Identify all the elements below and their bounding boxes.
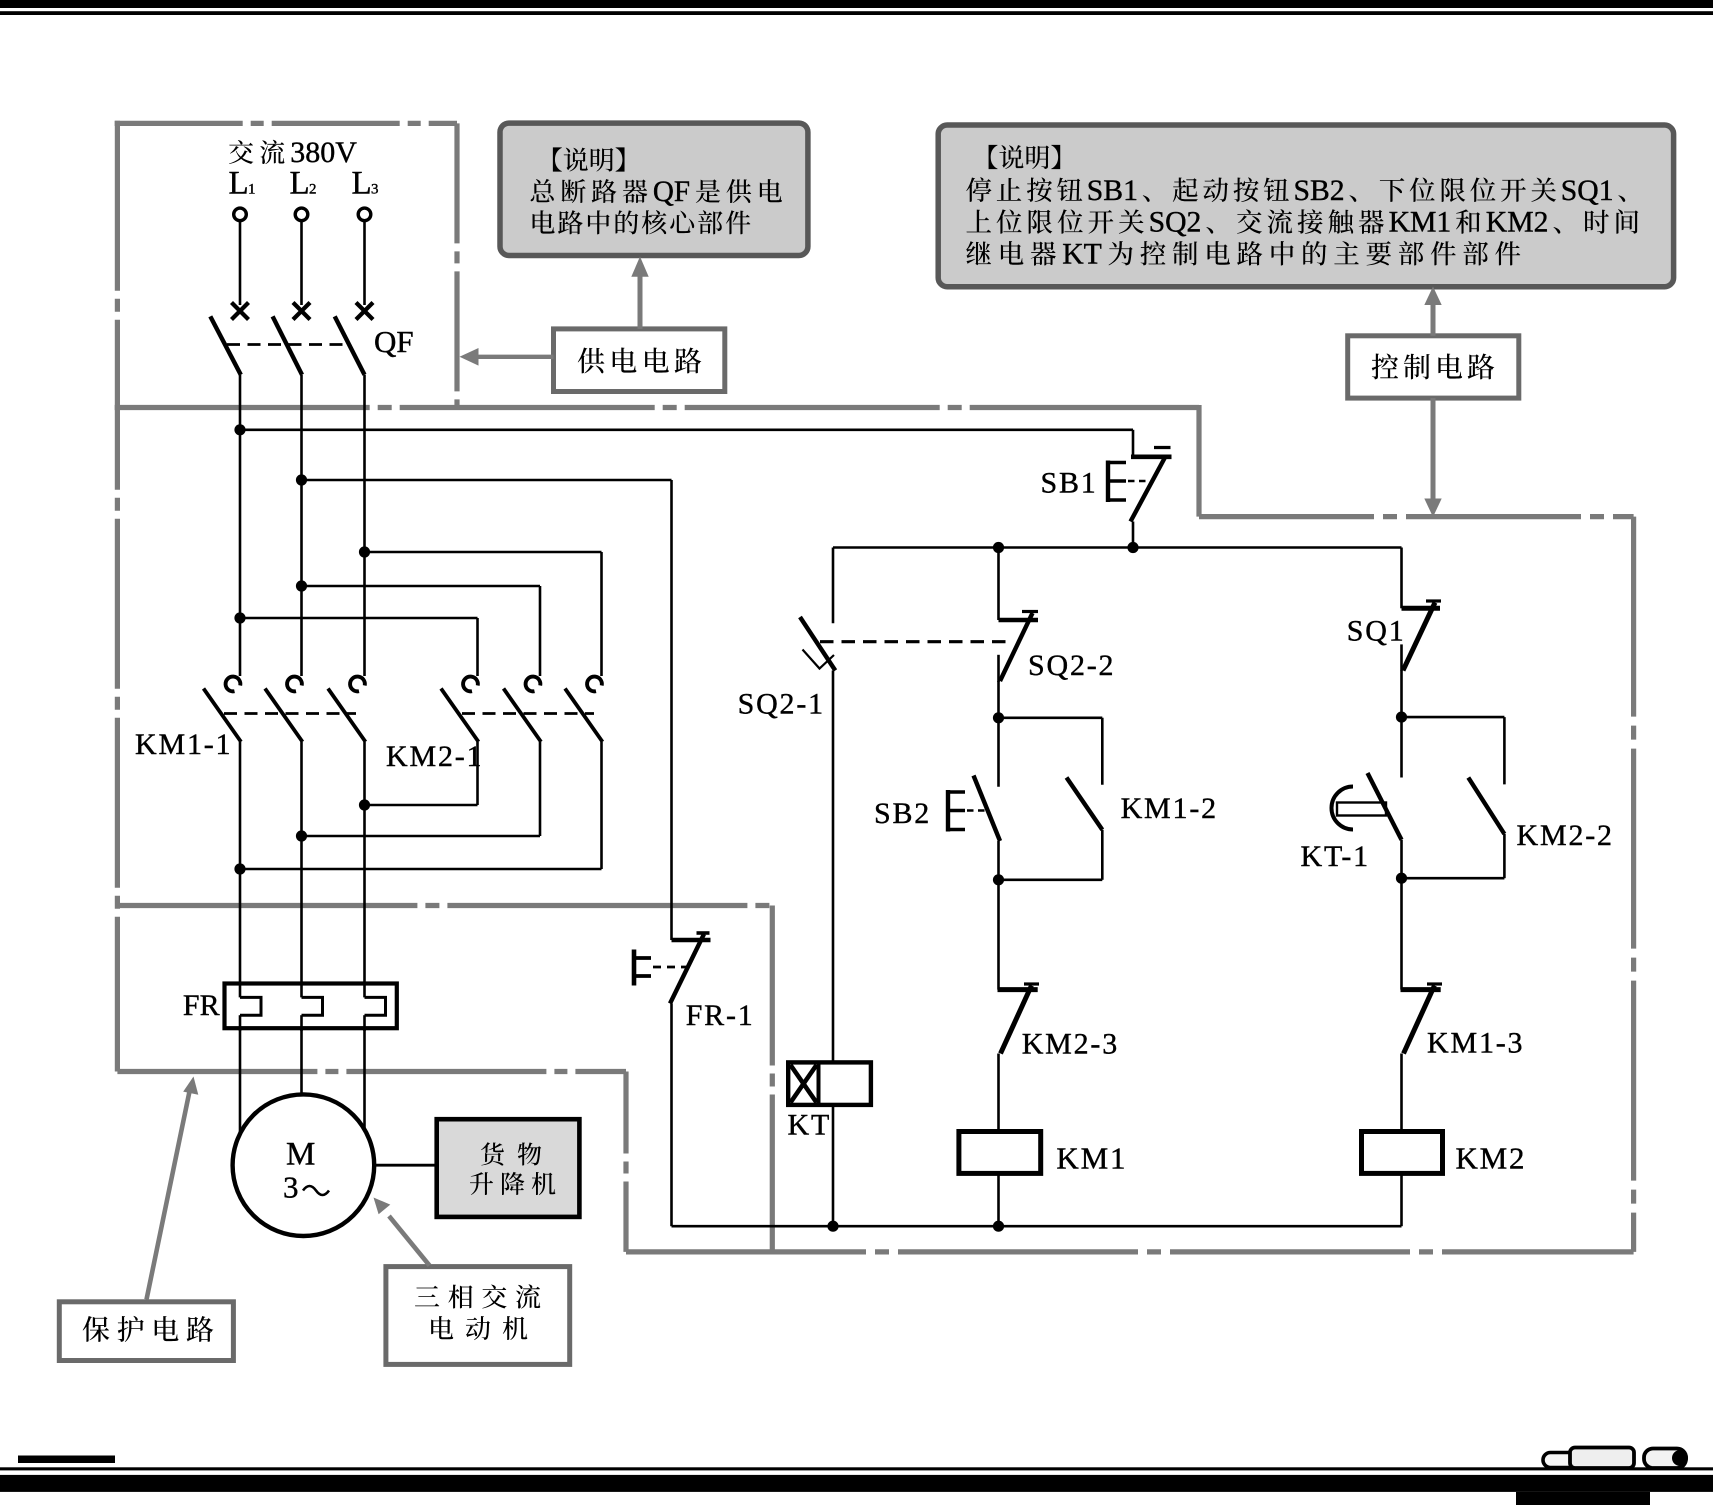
thermal relay FR heater element at x=240 <box>240 997 261 1015</box>
wire from L3 node to KM2-1 pole 3 <box>365 551 602 554</box>
svg-text:KM2-1: KM2-1 <box>386 740 483 773</box>
svg-text:FR: FR <box>183 989 220 1022</box>
circuit breaker QF pole 1 blade <box>210 316 241 374</box>
limit switch SQ1 blade <box>1403 603 1435 671</box>
svg-text:KM2: KM2 <box>1456 1141 1527 1176</box>
label box: control circuit (kong zhi dian lu) <box>1348 336 1519 398</box>
wire top rung down to SQ1 <box>1400 548 1403 609</box>
thermal contact FR-1 blade <box>670 934 704 1004</box>
wire KM2-3 to KM1 coil <box>997 1054 1000 1132</box>
control region frame left vertical <box>770 906 775 1252</box>
power region frame bottom edge <box>117 903 775 908</box>
wire KM2-2 branch top <box>1402 716 1505 719</box>
explanation box 2 text line 1 <box>966 177 991 202</box>
stop button SB1 blade <box>1131 456 1167 522</box>
svg-text:SB2: SB2 <box>1294 175 1345 207</box>
terminal L3 circle <box>358 208 371 221</box>
circuit breaker QF pole 2 fixed contact X <box>293 303 310 320</box>
label box: power supply circuit (gong dian dian lu) <box>554 329 725 392</box>
contactor KM2-1 pole 3 blade <box>565 689 603 742</box>
motor lead L3 <box>363 1028 366 1131</box>
wire through FR element x=240 <box>239 1015 242 1031</box>
protection region frame bottom edge <box>117 1069 626 1074</box>
interlock contact KM1-3 blade serif <box>1427 982 1442 985</box>
motor M circle <box>233 1094 375 1236</box>
svg-text:KM2-3: KM2-3 <box>1022 1028 1119 1061</box>
auxiliary contact KM2-2 blade (NO) <box>1468 778 1504 834</box>
node bottom rung / KT <box>827 1221 838 1232</box>
contactor KM2-1 pole 1 blade <box>441 689 479 742</box>
bottom right scan artifact pills <box>1543 1453 1581 1468</box>
wire L3 below QF <box>363 375 366 676</box>
svg-text:KM1-3: KM1-3 <box>1427 1027 1524 1060</box>
contactor KM1-1 pole 1 lower wire <box>239 742 242 998</box>
wire SB2 to lower node <box>997 841 1000 880</box>
svg-text:SB2: SB2 <box>874 797 931 830</box>
wire from L2 node to KM2-1 pole 2 <box>302 585 541 588</box>
protection region frame right vertical <box>623 1072 628 1252</box>
supply-circuit region frame right edge <box>454 123 459 407</box>
mechanical link SQ2-1 to SQ2-2 (dashed) <box>820 640 1009 643</box>
contactor coil KM1 <box>959 1132 1041 1174</box>
node on L2 feeding KM2-1 pole 2 <box>296 580 307 591</box>
svg-text:SB1: SB1 <box>1041 467 1098 500</box>
contactor KM1-1 pole 3 blade <box>328 689 366 742</box>
node on L2 feeding FR-1 branch <box>296 474 307 485</box>
wire KT-1 node down to KM1-3 <box>1400 878 1403 989</box>
terminal L2 circle <box>295 208 308 221</box>
control region frame bottom edge <box>626 1249 1634 1254</box>
wire node down to SB2 <box>997 718 1000 787</box>
contactor KM1-1 pole 3 fixed contact hook <box>350 677 365 692</box>
wire L3 from terminal to QF <box>363 222 366 306</box>
node KM2-1 pole1 / L3 <box>359 799 370 810</box>
wire KT-1 to lower node <box>1400 840 1403 878</box>
svg-text:L: L <box>352 166 372 202</box>
wire KM2-2 branch bottom <box>1503 834 1506 878</box>
explanation box 2 text line 3 <box>966 241 991 265</box>
svg-text:M: M <box>286 1137 315 1173</box>
motor lead L1 <box>239 1028 242 1135</box>
circuit breaker QF pole 1 fixed contact X <box>232 303 249 320</box>
contactor KM2-1 pole 2 blade <box>504 689 542 742</box>
svg-text:L: L <box>290 166 310 202</box>
time-delay contact KT-1 arc <box>1332 787 1354 830</box>
explanation box 2 text line 2 <box>967 210 992 233</box>
auxiliary contact KM1-2 blade (NO) <box>1067 778 1103 830</box>
contactor KM2-1 mechanical link (dashed) <box>462 712 594 715</box>
wire KM2-1 pole3 to L1 node <box>600 742 603 869</box>
explanation box 1 text line 2 <box>533 210 555 233</box>
contactor KM1-1 pole 3 lower wire <box>363 742 366 998</box>
svg-text:3: 3 <box>283 1170 299 1205</box>
node on L1 feeding control circuit <box>234 424 245 435</box>
svg-text:SB1: SB1 <box>1087 175 1138 207</box>
arrow from label box up to explanation box 1 <box>638 276 643 329</box>
limit switch SQ2-2 blade serif <box>1022 610 1038 613</box>
arrow from label box left to supply region <box>478 355 554 359</box>
contactor KM1-1 pole 2 lower wire <box>300 742 303 998</box>
interlock contact KM1-3 seat <box>1401 987 1441 992</box>
thermal relay FR heater element at x=301.5 <box>302 997 323 1015</box>
contactor KM1-1 pole 2 fixed contact hook <box>287 677 302 692</box>
svg-text:KM1-2: KM1-2 <box>1121 792 1218 825</box>
wire SB1 to top rung <box>1132 522 1135 548</box>
wire KM2-1 pole1 to L3 node <box>476 742 479 805</box>
motor lead L2 <box>300 1028 303 1095</box>
wire L1 below QF <box>239 375 242 676</box>
explanation box 1 heading <box>553 147 562 171</box>
wire L2 below QF <box>300 375 303 676</box>
svg-text:L: L <box>229 166 249 202</box>
svg-text:KT: KT <box>1062 238 1102 270</box>
control region frame corner vertical at x=1199 <box>1196 405 1201 517</box>
start button SB2 actuator dashed link <box>967 809 988 812</box>
arrow from control label box down to control region <box>1431 398 1436 500</box>
wire FR-1 down to bottom rung <box>670 1004 673 1227</box>
bottom right notch <box>1516 1492 1650 1505</box>
node KT-1 bottom / KM2-2 return <box>1396 873 1407 884</box>
thermal contact FR-1 actuator dashed link <box>653 966 689 969</box>
wire KM1-2 branch top <box>999 716 1103 719</box>
explanation box 2 <box>938 125 1673 287</box>
top border bar 2 <box>0 11 1713 15</box>
bottom thick rule <box>0 1475 1713 1492</box>
interlock contact KM1-3 blade <box>1404 986 1435 1054</box>
stop button SB1 actuator dashed link <box>1128 480 1148 483</box>
wire from L2 node to FR-1 branch <box>302 479 672 482</box>
svg-text:KM2-2: KM2-2 <box>1517 819 1614 852</box>
cargo lift box (huo wu sheng jiang ji) <box>437 1119 580 1217</box>
contactor KM2-1 pole 3 fixed contact hook <box>587 677 602 692</box>
svg-text:KT-1: KT-1 <box>1301 840 1370 873</box>
limit switch SQ2-1 blade <box>800 617 835 671</box>
start button SB2 blade (NO) <box>974 776 1001 842</box>
wire KM1-2 branch bottom <box>1101 830 1104 880</box>
node SQ1 / KM2-2 branch <box>1396 712 1407 723</box>
wire L1 from terminal to QF <box>239 222 242 306</box>
thermal contact FR-1 seat <box>672 938 711 942</box>
wire KM1 coil to bottom rung <box>997 1173 1000 1226</box>
thermal contact FR-1 actuator <box>632 950 637 986</box>
top border bar 1 <box>0 0 1713 8</box>
power/protection region frame left edge <box>115 121 120 1072</box>
start button SB2 actuator <box>946 790 950 832</box>
control region frame top edge <box>1199 514 1634 519</box>
wire from L1 node to SB1 <box>240 428 1133 431</box>
svg-text:1: 1 <box>248 182 256 198</box>
contactor KM1-1 pole 1 fixed contact hook <box>226 677 241 692</box>
label AC 380V <box>229 140 253 164</box>
wire KM2 coil to bottom rung <box>1400 1173 1403 1226</box>
arrow from motor label box to motor circle <box>389 1216 430 1266</box>
wire node down to KT-1 <box>1400 717 1403 777</box>
svg-text:QF: QF <box>374 324 414 359</box>
node SQ2-2 / KM1-2 branch <box>993 712 1004 723</box>
svg-text:2: 2 <box>309 182 317 198</box>
limit switch SQ2-2 contact seat <box>999 618 1039 623</box>
circuit breaker QF pole 2 blade <box>273 316 302 374</box>
wire KM1-3 to KM2 coil <box>1400 1054 1403 1132</box>
control bottom rung <box>672 1225 1402 1228</box>
power region frame horizontal below QF <box>115 405 1199 410</box>
node top rung / middle branch <box>993 542 1004 553</box>
contactor coil KM2 <box>1362 1132 1443 1174</box>
node SB2 bottom / KM1-2 return <box>993 874 1004 885</box>
wire SQ1 to node <box>1400 670 1403 717</box>
wire SQ2-1 down to KT coil <box>832 671 835 1063</box>
svg-text:KM2: KM2 <box>1486 207 1549 239</box>
time-delay contact KT-1 paddle <box>1337 803 1386 816</box>
svg-text:KM1: KM1 <box>1056 1141 1127 1176</box>
wire KM2-1 pole2 to L2 node <box>539 742 542 836</box>
wire from L1 node to KM2-1 pole 1 <box>240 617 478 620</box>
limit switch SQ1 blade serif <box>1426 599 1441 602</box>
wire through FR element x=364.5 <box>363 1015 366 1031</box>
explanation box 2 heading <box>989 145 998 169</box>
node on L1 feeding KM2-1 pole 1 <box>234 612 245 623</box>
circuit breaker QF pole 3 blade <box>335 316 365 374</box>
explanation box 1 text line 1 <box>531 179 554 202</box>
svg-text:380V: 380V <box>290 136 357 169</box>
circuit breaker QF pole 3 fixed contact X <box>356 303 373 320</box>
label box: protection circuit (bao hu dian lu) <box>59 1302 233 1361</box>
svg-text:SQ1: SQ1 <box>1347 615 1406 648</box>
time-delay contact KT-1 blade <box>1368 773 1402 840</box>
wire SB2 node down to KM2-3 <box>997 880 1000 990</box>
contactor KM2-1 pole 1 fixed contact hook <box>463 677 478 692</box>
limit switch SQ1 lower stub <box>1400 644 1403 671</box>
wire top rung down to SQ2-1 <box>832 548 835 624</box>
wire KT coil to bottom rung <box>832 1105 835 1226</box>
svg-text:QF: QF <box>653 176 690 208</box>
wire through FR element x=301.5 <box>300 1015 303 1031</box>
svg-text:SQ2-2: SQ2-2 <box>1028 649 1115 682</box>
limit switch SQ1 contact seat <box>1402 606 1441 611</box>
bottom thin rule <box>0 1467 1713 1470</box>
contactor KM2-1 pole 2 fixed contact hook <box>526 677 541 692</box>
svg-text:SQ1: SQ1 <box>1561 175 1614 207</box>
control top rung <box>833 546 1402 549</box>
arrow from protection label box to protection region corner <box>147 1089 191 1300</box>
wire L2 from terminal to QF <box>300 222 303 306</box>
explanation box 1 <box>500 123 808 255</box>
thermal relay FR heater element at x=364.5 <box>365 997 386 1015</box>
terminal L1 circle <box>234 208 247 221</box>
node top rung / SB1 <box>1127 542 1138 553</box>
stop button SB1 blade serif <box>1154 446 1171 449</box>
time relay coil KT <box>788 1062 871 1105</box>
supply-circuit region frame (dash-dot) top edge <box>115 121 457 126</box>
thermal contact FR-1 blade serif <box>697 931 710 935</box>
svg-text:KT: KT <box>788 1109 832 1142</box>
contactor KM1-1 pole 1 blade <box>204 689 242 742</box>
bottom small black bar <box>18 1456 115 1464</box>
svg-text:SQ2-1: SQ2-1 <box>738 688 825 721</box>
node KM2-1 pole2 / L2 <box>296 830 307 841</box>
svg-text:SQ2: SQ2 <box>1149 207 1202 239</box>
thermal relay FR box <box>225 984 397 1029</box>
limit switch SQ2-1 wedge <box>803 650 835 669</box>
arrow from control label box up to explanation box 2 <box>1431 304 1436 336</box>
limit switch SQ2-2 blade <box>1000 613 1033 681</box>
circuit breaker QF mechanical link (dashed) <box>227 343 348 346</box>
contactor KM1-1 pole 2 blade <box>265 689 303 742</box>
svg-text:3: 3 <box>371 182 379 198</box>
svg-text:KM1-1: KM1-1 <box>135 728 232 761</box>
node KM2-1 pole3 / L1 <box>234 863 245 874</box>
interlock contact KM2-3 blade serif <box>1024 982 1039 985</box>
contactor KM1-1 mechanical link (dashed) <box>224 712 356 715</box>
stop button SB1 actuator <box>1106 461 1110 503</box>
node bottom rung / KM1 coil <box>993 1221 1004 1232</box>
interlock contact KM2-3 seat <box>998 987 1038 992</box>
wire top rung down to SQ2-2 <box>997 548 1000 621</box>
interlock contact KM2-3 blade <box>1001 986 1032 1054</box>
label box: three-phase AC motor (san xiang jiao liu dian dong ji) <box>386 1267 570 1365</box>
limit switch SQ2-2 lower stub <box>997 655 1000 682</box>
node on L3 feeding KM2-1 pole 3 <box>359 546 370 557</box>
stop button SB1 contact seat <box>1131 454 1172 459</box>
control region frame right edge <box>1631 517 1636 1252</box>
svg-text:KM1: KM1 <box>1389 207 1452 239</box>
svg-text:FR-1: FR-1 <box>686 999 755 1032</box>
wire SQ2-2 to SB2 node <box>997 681 1000 718</box>
wire motor to cargo lift box <box>374 1164 437 1167</box>
